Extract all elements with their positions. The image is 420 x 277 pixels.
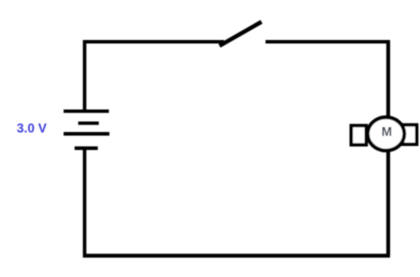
- wire left vertical lower: [83, 148, 87, 258]
- battery B1 plate short lower: [75, 146, 98, 150]
- motor M1 letter M: [381, 125, 392, 139]
- motor M1 left brush terminal: [351, 126, 366, 145]
- wire bottom horizontal: [83, 254, 390, 258]
- switch S1 (open lever): [220, 22, 262, 46]
- motor M1 body circle: [368, 117, 405, 150]
- battery value label 3.0 V: [17, 120, 47, 135]
- battery B1 plate long top: [64, 109, 109, 112]
- wire left vertical upper: [83, 40, 87, 112]
- wire top-right horizontal: [266, 40, 391, 44]
- battery B1 plate short upper: [78, 121, 99, 124]
- motor M1 right brush terminal: [403, 125, 417, 144]
- svg-text:M: M: [381, 125, 392, 139]
- svg-text:3.0 V: 3.0 V: [17, 120, 47, 135]
- wire top-left horizontal: [83, 40, 224, 44]
- battery B1 plate long bottom: [64, 132, 110, 136]
- wire right vertical lower: [386, 150, 390, 256]
- wire right vertical upper: [386, 40, 390, 118]
